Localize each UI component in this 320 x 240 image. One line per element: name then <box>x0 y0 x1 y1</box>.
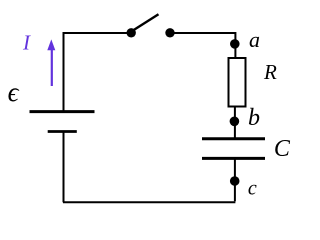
svg-text:R: R <box>263 60 277 84</box>
svg-text:c: c <box>248 177 257 199</box>
svg-text:b: b <box>248 105 260 131</box>
svg-text:ϵ: ϵ <box>8 77 20 107</box>
svg-text:I: I <box>22 30 31 54</box>
svg-text:a: a <box>249 27 260 52</box>
svg-text:C: C <box>274 136 291 162</box>
